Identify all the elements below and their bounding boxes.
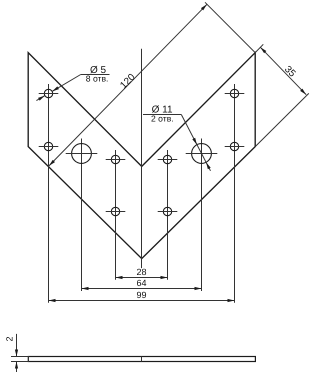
dimension 2: extension lines <box>11 356 29 358</box>
label &#216;5: leader line <box>52 75 81 92</box>
label &#216;11: shelf line <box>143 114 181 116</box>
dimension 120: arrowhead NE <box>201 4 207 10</box>
hole H2 &#216;5 at (48.5,146.5) <box>44 142 52 150</box>
side view: apex edge line <box>141 357 143 362</box>
svg-text:2: 2 <box>5 336 15 341</box>
label &#216;5: arrowhead far edge <box>38 96 45 101</box>
dimension 28: arrowheads <box>116 276 123 279</box>
hole H4 &#216;5 at (115.5,211.5) <box>111 207 119 215</box>
svg-text:99: 99 <box>136 290 146 300</box>
dimension 35: dimension line <box>260 47 306 94</box>
label &#216;5: arrowhead near edge <box>52 86 59 91</box>
plate outline (chevron V-plate, main view) <box>28 53 255 259</box>
dimension 35: arrowhead NW <box>260 47 266 53</box>
label &#216;11: leader line through hole <box>181 115 210 171</box>
hole H5 &#216;5 at (167.5,159.5) <box>163 155 171 163</box>
dimension 35: extension line (inner edge extended beyond A&apos;) <box>255 44 264 53</box>
centerline: left outer hole column x=48.5 <box>48 84 50 303</box>
label &#216;11: arrowhead near edge <box>192 138 197 145</box>
dimension 120: dimension line <box>49 4 207 166</box>
label &#216;11: arrowhead far edge <box>206 162 211 169</box>
dimension 64: dimension line <box>82 288 202 290</box>
hole H3 &#216;5 at (115.5,159.5) <box>111 155 119 163</box>
dimension 2: dimension line below <box>16 362 18 373</box>
dimension 2: dimension line above <box>16 334 18 357</box>
hole H1 &#216;5 at (48.5,93.5) <box>44 89 52 97</box>
dimension 35: extension line (outer edge extended beyond B&apos;) <box>255 93 309 146</box>
centerline: right outer hole column x=234.5 <box>234 84 236 303</box>
dimension 2: arrowheads <box>15 350 18 357</box>
centerline: right big hole column x=201.5 <box>201 139 203 292</box>
centerline: right inner hole column x=167.5 <box>167 150 169 280</box>
hole H8 &#216;5 at (234.5,146.5) <box>230 142 238 150</box>
centerline: left big hole column x=81.5 <box>81 139 83 292</box>
hole H6 &#216;5 at (167.5,211.5) <box>163 207 171 215</box>
side view: plate bar (edge view, thickness 2) <box>28 357 255 362</box>
svg-text:64: 64 <box>136 278 146 288</box>
hole B2 &#216;11 at (201.5,153.5) <box>192 144 212 164</box>
hole H7 &#216;5 at (234.5,93.5) <box>230 89 238 97</box>
label &#216;5: far-side tail <box>36 96 45 101</box>
centerline: left inner hole column x=115.5 <box>115 150 117 280</box>
centerline: vertical symmetry axis <box>141 49 143 268</box>
dimension 99: dimension line <box>49 300 235 302</box>
dimension 99: arrowheads <box>49 299 56 302</box>
dimension 120: arrowhead SW <box>49 160 55 166</box>
svg-text:8 отв.: 8 отв. <box>86 74 109 84</box>
svg-text:35: 35 <box>282 64 298 80</box>
label &#216;5: shelf line <box>81 74 110 76</box>
hole B1 &#216;11 at (81.5,153.5) <box>72 144 92 164</box>
svg-text:120: 120 <box>118 71 138 91</box>
dimension 64: arrowheads <box>82 287 89 290</box>
dimension 120: extension line from corner A&apos; to dim line <box>205 2 255 52</box>
svg-text:28: 28 <box>136 267 146 277</box>
dimension 28: dimension line <box>116 277 168 279</box>
dimension 35: arrowhead SE <box>300 89 306 95</box>
